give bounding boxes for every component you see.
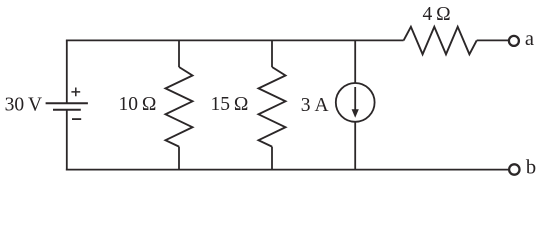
terminal a circle [509,36,519,46]
svg-text:10 Ω: 10 Ω [119,94,157,115]
wire bottom rail [66,169,509,171]
svg-text:3 A: 3 A [301,95,329,116]
wire left vertical lower (battery - terminal to bottom rail) [66,110,68,171]
terminal b circle [509,164,519,174]
wire top rail [66,39,404,41]
resistor R3 4 ohm body [404,27,477,55]
current source I1 bottom lead [354,122,356,171]
resistor R2 15 ohm top lead [271,40,273,68]
resistor R1 10 ohm bottom lead [178,147,180,171]
resistor R1 10 ohm body [166,67,193,147]
svg-text:a: a [525,28,534,50]
svg-text:15 Ω: 15 Ω [211,94,249,115]
current source I1 3 A circle [336,83,375,122]
resistor R2 15 ohm body [259,67,286,147]
resistor R1 10 ohm top lead [178,40,180,68]
svg-text:4 Ω: 4 Ω [423,4,451,25]
current source I1 arrow [354,87,356,111]
svg-text:b: b [526,156,536,178]
current source I1 3 A top lead [354,40,356,84]
battery source V1 30 V [46,88,88,120]
svg-text:30 V: 30 V [5,95,43,116]
resistor R2 15 ohm bottom lead [271,147,273,171]
wire left vertical upper (battery + terminal to top rail) [66,40,68,103]
wire 4 ohm to terminal a [477,39,508,41]
